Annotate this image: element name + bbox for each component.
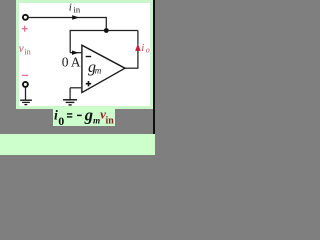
svg-text:0: 0 <box>62 55 69 70</box>
svg-text:A: A <box>71 55 81 70</box>
svg-text:in: in <box>106 115 114 126</box>
svg-text:in: in <box>74 5 81 15</box>
svg-text:o: o <box>146 46 150 55</box>
svg-text:in: in <box>24 47 31 57</box>
svg-text:0: 0 <box>58 114 64 128</box>
svg-text:i: i <box>69 1 72 13</box>
svg-text:g: g <box>84 106 93 125</box>
svg-text:m: m <box>95 65 102 75</box>
svg-text:i: i <box>141 42 144 54</box>
